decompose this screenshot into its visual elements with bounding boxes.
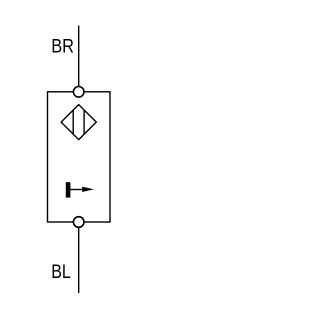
- component body (flow sensor outline): [48, 92, 111, 222]
- svg-text:BL: BL: [51, 262, 71, 283]
- measuring transducer diamond: [61, 105, 96, 140]
- flow symbol arrowhead: [82, 187, 94, 192]
- transducer inner line left: [72, 110, 74, 134]
- port circle top (BR connection): [73, 87, 84, 98]
- flow symbol arrow shaft: [70, 189, 84, 191]
- flow symbol bar: [66, 182, 71, 197]
- transducer inner line right: [83, 110, 85, 134]
- port circle bottom (BL connection): [73, 217, 84, 228]
- svg-text:BR: BR: [51, 36, 74, 57]
- wire bottom port to BL: [78, 228, 80, 293]
- label BL: [51, 262, 71, 283]
- wire BR to top port: [78, 26, 80, 88]
- label BR: [51, 36, 74, 57]
